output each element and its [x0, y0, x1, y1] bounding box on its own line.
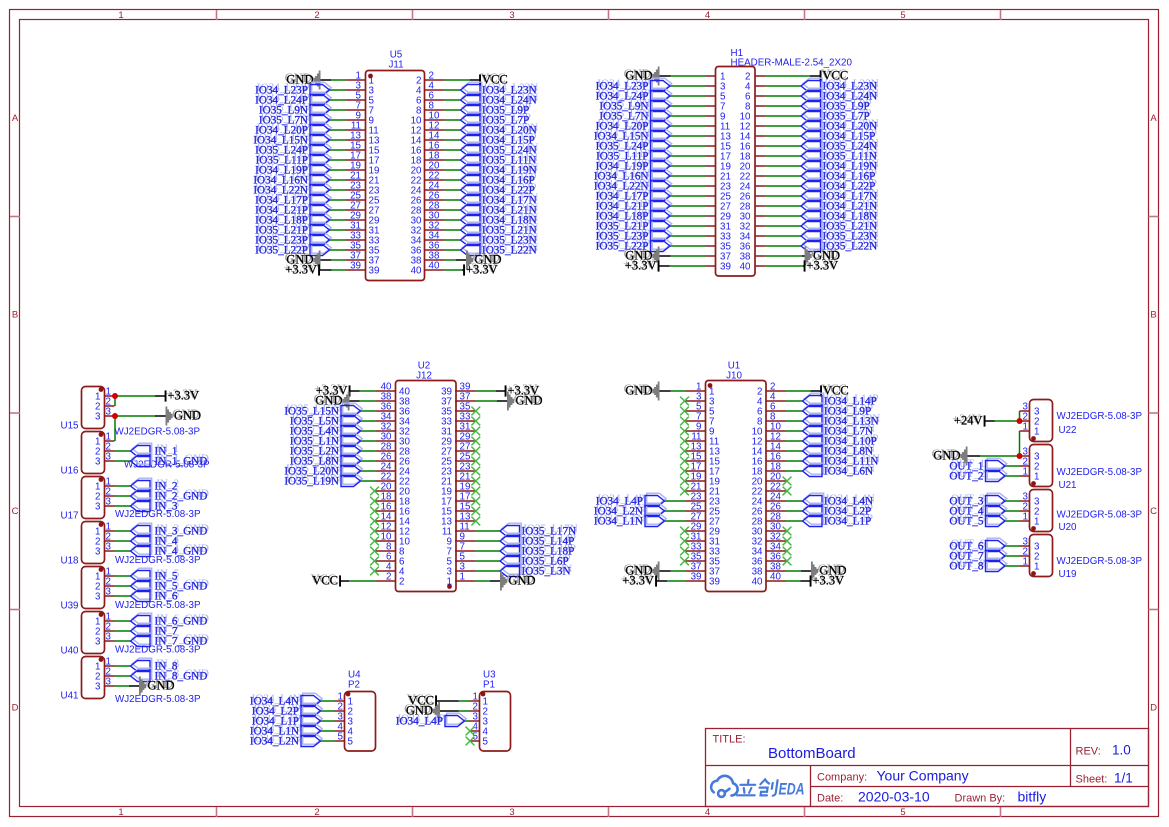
- U5 pin 4: [425, 89, 445, 91]
- power bar +3.3V at H1 pin 39: [658, 260, 660, 271]
- svg-text:3: 3: [509, 10, 514, 21]
- U1 pin 36: [766, 560, 786, 562]
- wire net IO35_L24N to U5 pin 16: [445, 149, 461, 151]
- wire VCC to U5 pin 2: [445, 79, 471, 81]
- connector U19 body: [1030, 535, 1053, 577]
- U16 pin-1 marker dot: [99, 432, 104, 437]
- wire net IO35_L9N to U5 pin 7: [330, 109, 346, 111]
- U2 pin 37: [455, 400, 475, 402]
- svg-text:5: 5: [338, 732, 344, 743]
- U5 pin 15: [346, 149, 366, 151]
- U1 pin 5: [686, 410, 706, 412]
- net flag IO34_L19P at H1: [652, 158, 672, 169]
- wire net IO35_L22P to U5 pin 35: [330, 249, 346, 251]
- junction at U22 pin 2: [1017, 418, 1023, 424]
- wire net IO34_L21N to U5 pin 28: [445, 209, 461, 211]
- net flag IO35_L7P at H1: [803, 108, 823, 119]
- U2 pin 5: [455, 560, 475, 562]
- U1 pin 18: [766, 470, 786, 472]
- svg-text:bitfly: bitfly: [1018, 789, 1047, 805]
- wire net IO34_L8N to U1 pin 14: [786, 450, 803, 452]
- net flag IN_4_GND: [132, 543, 152, 554]
- net flag IO35_L5N: [343, 413, 363, 424]
- svg-text:39: 39: [691, 572, 702, 583]
- H1 pin 3: [706, 85, 716, 87]
- wire net IO34_L16N to U5 pin 21: [330, 179, 346, 181]
- U2 pin 15: [455, 510, 475, 512]
- U2 pin 36: [376, 410, 396, 412]
- svg-text:1: 1: [1023, 512, 1028, 523]
- wire GND to U2 pin 38: [360, 400, 376, 402]
- wire +24V to U22 pins 2-3: [995, 420, 1020, 422]
- no-connect X at U2 pin 21: [471, 477, 480, 486]
- svg-text:39: 39: [709, 577, 720, 588]
- wire +3.3V to U2 pin 40: [360, 390, 376, 392]
- svg-text:40: 40: [411, 266, 422, 277]
- ground symbol at H1 pin 38: [805, 247, 812, 266]
- ground symbol at U5 pin 1: [313, 71, 320, 90]
- wire +3.3V to U5 pin 39: [332, 269, 346, 271]
- wire net IO34_L18N to U5 pin 30: [445, 219, 461, 221]
- U3 pin 5: [470, 740, 480, 742]
- wire net IO34_L22N to U5 pin 23: [330, 189, 346, 191]
- U5 pin 20: [425, 169, 445, 171]
- wire net IO34_L18P to U5 pin 29: [330, 219, 346, 221]
- svg-text:+3.3V: +3.3V: [813, 574, 845, 588]
- net flag IO35_L22N: [462, 242, 482, 253]
- wire net IN_3 to U17 pin 3: [115, 505, 131, 507]
- svg-text:3: 3: [95, 682, 101, 693]
- net flag IO34_L19N at H1: [803, 158, 823, 169]
- U20 pin 2: [1020, 510, 1030, 512]
- wire net IO34_L1N to U1 pin 27: [665, 520, 686, 522]
- svg-text:40: 40: [770, 572, 781, 583]
- net flag IO35_L17N: [502, 523, 522, 534]
- U2 pin 19: [455, 490, 475, 492]
- wire net IO34_L16N to H1 pin 21: [670, 175, 706, 177]
- net flag OUT_1: [987, 458, 1007, 469]
- svg-text:40: 40: [740, 262, 751, 273]
- net flag IO34_L18N: [462, 212, 482, 223]
- no-connect X at U1 pin 32: [783, 537, 792, 546]
- net flag IO34_L21P: [312, 202, 332, 213]
- net flag IO34_L2P: [303, 703, 323, 714]
- wire net IO34_L22P to H1 pin 24: [765, 185, 801, 187]
- ground symbol at U21 pin 3: [960, 447, 967, 466]
- H1 pin 1: [706, 75, 716, 77]
- wire net IO34_L17N to U5 pin 26: [445, 199, 461, 201]
- wire GND to U3 pin 2: [459, 710, 470, 712]
- U5 pin 37: [346, 259, 366, 261]
- net flag IO34_L11N: [804, 453, 824, 464]
- H1 pin 28: [755, 205, 765, 207]
- U1 pin 26: [766, 510, 786, 512]
- wire +3.3V to H1 pin 40: [765, 265, 803, 267]
- U5 pin 19: [346, 169, 366, 171]
- connector U16 body: [82, 432, 105, 474]
- wire net IO34_L18P to H1 pin 29: [670, 215, 706, 217]
- junction at U15 pin 3: [112, 413, 118, 419]
- net flag IO35_L18P: [502, 543, 522, 554]
- H1 pin 21: [706, 175, 716, 177]
- wire net IO35_L9N to H1 pin 7: [670, 105, 706, 107]
- U1 pin 30: [766, 530, 786, 532]
- ground symbol at U2 pin 38: [342, 392, 349, 411]
- net flag IO34_L6N: [804, 463, 824, 474]
- no-connect X at U1 pin 15: [680, 457, 689, 466]
- net flag IO34_L16N: [312, 172, 332, 183]
- no-connect X at U2 pin 33: [471, 417, 480, 426]
- net flag IO34_L19P: [312, 162, 332, 173]
- wire net IO35_L17N to U2 pin 11: [475, 530, 500, 532]
- wire GND to U5 pin 38: [445, 259, 457, 261]
- wire net IN_1 to U16 pin 2: [115, 450, 131, 452]
- net flag IO34_L22N: [312, 182, 332, 193]
- no-connect X at U2 pin 15: [471, 507, 480, 516]
- svg-text:OUT_8: OUT_8: [949, 561, 984, 573]
- net flag IO34_L2N: [303, 733, 323, 744]
- svg-text:3: 3: [106, 632, 112, 643]
- wire net IO35_L7P to H1 pin 10: [765, 115, 801, 117]
- U1 pin 20: [766, 480, 786, 482]
- net flag IO35_L11P: [312, 152, 332, 163]
- wire net IO35_L7N to H1 pin 9: [670, 115, 706, 117]
- wire +3.3V to U1 pin 39: [667, 580, 686, 582]
- wire net IO34_L2N to U4 pin 5: [321, 740, 335, 742]
- svg-text:WJ2EDGR-5.08-3P: WJ2EDGR-5.08-3P: [1057, 510, 1143, 521]
- U22 pin 2: [1020, 420, 1030, 422]
- svg-text:OUT_2: OUT_2: [949, 471, 983, 483]
- net flag IO35_L21P at H1: [652, 218, 672, 229]
- wire VCC to U3 pin 1: [459, 700, 470, 702]
- H1 pin 5: [706, 95, 716, 97]
- U1 pin 39: [686, 580, 706, 582]
- wire net IO34_L10P to U1 pin 12: [786, 440, 803, 442]
- net flag IO34_L9P: [804, 403, 824, 414]
- net flag IN_8_GND: [132, 668, 152, 679]
- no-connect X at U1 pin 20: [783, 477, 792, 486]
- wire net IO34_L15N to U5 pin 13: [330, 139, 346, 141]
- no-connect X at U1 pin 3: [680, 397, 689, 406]
- U41 pin-1 marker dot: [99, 657, 104, 662]
- svg-text:U20: U20: [1059, 522, 1078, 533]
- U5 pin 36: [425, 249, 445, 251]
- wire net IO34_L1N to U4 pin 4: [321, 730, 335, 732]
- U1 pin 2: [766, 390, 786, 392]
- wire net IN_2_GND to U17 pin 2: [115, 495, 131, 497]
- U1 pin 27: [686, 520, 706, 522]
- U2 pin 35: [455, 410, 475, 412]
- wire GND to U41 pin 3: [115, 685, 130, 687]
- svg-text:3: 3: [95, 502, 101, 513]
- svg-text:40: 40: [429, 261, 440, 272]
- svg-text:Sheet:: Sheet:: [1076, 774, 1108, 786]
- no-connect X at U2 pin 18: [370, 497, 379, 506]
- wire net IO35_L22N to U5 pin 36: [445, 249, 461, 251]
- power bar +3.3V at U1 pin 40: [810, 575, 812, 586]
- net flag IO34_L22N at H1: [652, 178, 672, 189]
- no-connect X at U1 pin 21: [680, 487, 689, 496]
- wire net IN_8 to U41 pin 1: [115, 665, 131, 667]
- net flag IO34_L18N at H1: [803, 208, 823, 219]
- U40 pin 2: [105, 630, 115, 632]
- U22 pin-1 marker dot: [1031, 436, 1036, 441]
- svg-text:5: 5: [900, 10, 905, 21]
- U2 pin 13: [455, 520, 475, 522]
- U5 pin 25: [346, 199, 366, 201]
- wire net IO34_L6N to U1 pin 18: [786, 470, 803, 472]
- U5 pin 10: [425, 119, 445, 121]
- svg-text:GND: GND: [933, 449, 960, 463]
- net flag IO34_L8N: [804, 443, 824, 454]
- net flag IO34_L13N: [804, 413, 824, 424]
- wire net IO35_L23N to U5 pin 34: [445, 239, 461, 241]
- wire net IO34_L2P to U1 pin 26: [786, 510, 803, 512]
- U2 pin 10: [376, 540, 396, 542]
- U2 pin 14: [376, 520, 396, 522]
- ground symbol at U1 pin 38: [811, 562, 818, 581]
- H1 pin 22: [755, 175, 765, 177]
- connector U21 body: [1030, 445, 1053, 487]
- wire net IO35_L24N to H1 pin 16: [765, 145, 801, 147]
- wire net IO35_L21N to H1 pin 32: [765, 225, 801, 227]
- U1 pin 4: [766, 400, 786, 402]
- net flag IO35_L23P at H1: [652, 228, 672, 239]
- U5 pin 2: [425, 79, 445, 81]
- U5 pin 13: [346, 139, 366, 141]
- wire net IO34_L24N to H1 pin 6: [765, 95, 801, 97]
- svg-text:GND: GND: [625, 384, 652, 398]
- U3 pin 1: [470, 700, 480, 702]
- net flag IO35_L11N: [462, 152, 482, 163]
- wire net IO34_L21P to H1 pin 27: [670, 205, 706, 207]
- U1 pin 33: [686, 550, 706, 552]
- H1 pin 33: [706, 235, 716, 237]
- H1 pin 4: [755, 85, 765, 87]
- net flag IO35_L9N at H1: [652, 98, 672, 109]
- svg-text:1: 1: [1023, 422, 1028, 433]
- wire GND to U5 pin 37: [331, 259, 346, 261]
- net flag IO34_L21N at H1: [803, 198, 823, 209]
- U5 pin 3: [346, 89, 366, 91]
- no-connect X at U1 pin 34: [783, 547, 792, 556]
- U17 pin 3: [105, 505, 115, 507]
- ground symbol at U15: [166, 407, 173, 426]
- net flag IO34_L19N: [462, 162, 482, 173]
- svg-text:39: 39: [369, 266, 380, 277]
- wire net IO34_L17P to H1 pin 25: [670, 195, 706, 197]
- net flag IO34_L17P: [312, 192, 332, 203]
- U1 pin 15: [686, 460, 706, 462]
- U4 pin 2: [335, 710, 345, 712]
- U5 pin 1: [346, 79, 366, 81]
- wire GND to U5 pin 1: [331, 79, 346, 81]
- svg-text:U16: U16: [61, 466, 80, 477]
- svg-text:IO35_L19N: IO35_L19N: [284, 476, 339, 488]
- net flag OUT_5: [987, 513, 1007, 524]
- svg-text:BottomBoard: BottomBoard: [768, 745, 856, 762]
- connector U20 body: [1030, 490, 1053, 532]
- wire net IO34_L11N to U1 pin 16: [786, 460, 803, 462]
- H1 pin 9: [706, 115, 716, 117]
- no-connect X at U2 pin 25: [471, 457, 480, 466]
- wire net IO35_L2N to U2 pin 28: [361, 450, 376, 452]
- wire net IO34_L15N to H1 pin 13: [670, 135, 706, 137]
- H1 pin 32: [755, 225, 765, 227]
- H1 pin 26: [755, 195, 765, 197]
- svg-text:P2: P2: [348, 680, 360, 691]
- wire net IO35_L23N to H1 pin 34: [765, 235, 801, 237]
- wire GND to H1 pin 1: [671, 75, 706, 77]
- net flag IO34_L22P: [462, 182, 482, 193]
- U2 pin 26: [376, 460, 396, 462]
- U5 pin 32: [425, 229, 445, 231]
- net flag IO35_L9P at H1: [803, 98, 823, 109]
- net flag IO35_L9P: [462, 102, 482, 113]
- U5 pin-1 marker dot: [368, 74, 373, 79]
- wire +3.3V from U15 pins 1-2: [115, 395, 156, 397]
- net flag IO34_L18P: [312, 212, 332, 223]
- LCEDA logo cloud icon: [711, 776, 738, 797]
- U18 pin-1 marker dot: [99, 522, 104, 527]
- net flag IO34_L14P: [804, 393, 824, 404]
- svg-text:2: 2: [314, 807, 319, 818]
- H1 pin 38: [755, 255, 765, 257]
- U15 pin 1: [105, 395, 115, 397]
- U1 pin 31: [686, 540, 706, 542]
- net flag IO34_L23N: [462, 82, 482, 93]
- U4 pin 1: [335, 700, 345, 702]
- U5 pin 6: [425, 99, 445, 101]
- junction at U21 pin 3: [1017, 453, 1023, 459]
- svg-text:5: 5: [900, 807, 905, 818]
- connector U22 body: [1030, 400, 1053, 442]
- svg-text:J12: J12: [416, 371, 432, 382]
- svg-text:EDA: EDA: [779, 781, 805, 799]
- net flag IO35_L21N at H1: [803, 218, 823, 229]
- net flag IO34_L16N at H1: [652, 168, 672, 179]
- svg-text:GND: GND: [516, 394, 543, 408]
- U1 pin 13: [686, 450, 706, 452]
- svg-text:C: C: [1150, 506, 1157, 517]
- net flag IO35_L24N: [462, 142, 482, 153]
- svg-text:1/1: 1/1: [1114, 771, 1133, 786]
- wire net IO34_L7N to U1 pin 10: [786, 430, 803, 432]
- power bar +3.3V at U1 pin 39: [655, 575, 657, 586]
- U19 pin 3: [1020, 545, 1030, 547]
- wire net IO34_L22P to U5 pin 24: [445, 189, 461, 191]
- connector U41 body: [82, 657, 105, 699]
- U2 pin 31: [455, 430, 475, 432]
- net flag IO34_L20N: [462, 122, 482, 133]
- wire net IO34_L21N to H1 pin 28: [765, 205, 801, 207]
- svg-text:D: D: [12, 703, 19, 714]
- ground symbol at U5 pin 37: [313, 251, 320, 270]
- svg-text:IN_4_GND: IN_4_GND: [155, 546, 208, 558]
- U2 pin 7: [455, 550, 475, 552]
- U3 pin-1 marker dot: [481, 692, 486, 697]
- net flag OUT_7: [987, 548, 1007, 559]
- U2 pin 38: [376, 400, 396, 402]
- no-connect X at U2 pin 4: [370, 567, 379, 576]
- wire net IO35_L11N to U5 pin 18: [445, 159, 461, 161]
- H1 pin 7: [706, 105, 716, 107]
- svg-text:TITLE:: TITLE:: [713, 734, 746, 746]
- net flag IO35_L23N: [462, 232, 482, 243]
- net flag IO34_L21P at H1: [652, 198, 672, 209]
- U2 pin 2: [376, 580, 396, 582]
- wire net IO34_L17N to H1 pin 26: [765, 195, 801, 197]
- wire net IN_5 to U39 pin 1: [115, 575, 131, 577]
- svg-text:1: 1: [1034, 427, 1039, 438]
- svg-text:U19: U19: [1059, 569, 1077, 580]
- svg-text:1: 1: [1034, 562, 1039, 573]
- U39 pin 1: [105, 575, 115, 577]
- wire net IO34_L16P to H1 pin 22: [765, 175, 801, 177]
- net flag IO34_L20P at H1: [652, 118, 672, 129]
- net flag IO35_L24N at H1: [803, 138, 823, 149]
- U1 pin 24: [766, 500, 786, 502]
- wire net IO34_L20P to U5 pin 11: [330, 129, 346, 131]
- net flag IO34_L15P: [462, 132, 482, 143]
- net flag IO34_L23P: [312, 82, 332, 93]
- svg-text:B: B: [12, 310, 18, 321]
- wire net IN_7 to U40 pin 2: [115, 630, 131, 632]
- power bar VCC at U1 pin 2: [820, 385, 822, 396]
- net flag IO34_L23N at H1: [803, 78, 823, 89]
- U5 pin 30: [425, 219, 445, 221]
- wire GND to U2 pin 1: [475, 580, 490, 582]
- ground symbol at U1 pin 1: [652, 382, 659, 401]
- svg-text:REV:: REV:: [1076, 746, 1101, 758]
- wire net IO35_L9P to H1 pin 8: [765, 105, 801, 107]
- svg-text:1: 1: [1034, 517, 1039, 528]
- H1 pin 11: [706, 125, 716, 127]
- U2 pin 23: [455, 470, 475, 472]
- connector U40 body: [82, 612, 105, 654]
- net flag IO35_L24P at H1: [652, 138, 672, 149]
- U1 pin 40: [766, 580, 786, 582]
- U1 pin 21: [686, 490, 706, 492]
- wire GND from U15 pin 3 to U16 pin 1: [115, 415, 156, 417]
- no-connect X at U1 pin 17: [680, 467, 689, 476]
- LCEDA logo Chinese characters: [737, 779, 778, 795]
- net flag IO35_L7N: [312, 112, 332, 123]
- no-connect X at U1 pin 33: [680, 547, 689, 556]
- net flag OUT_8: [987, 558, 1007, 569]
- net flag IO35_L23P: [312, 232, 332, 243]
- wire net OUT_6 to U19 pin 3: [1005, 545, 1020, 547]
- wire net IN_6 to U39 pin 3: [115, 595, 131, 597]
- wire net IO34_L24P to H1 pin 5: [670, 95, 706, 97]
- net flag IO34_L15N: [312, 132, 332, 143]
- U1 pin 14: [766, 450, 786, 452]
- net flag IN_2_GND: [132, 488, 152, 499]
- wire net IO35_L20N to U2 pin 24: [361, 470, 376, 472]
- net flag IO34_L24P at H1: [652, 88, 672, 99]
- connector U3 (P1) body: [480, 692, 511, 752]
- wire net OUT_2 to U21 pin 1: [1005, 475, 1020, 477]
- U21 pin-1 marker dot: [1031, 481, 1036, 486]
- net flag IN_1: [132, 443, 152, 454]
- power bar +24V at U22: [984, 415, 986, 426]
- svg-text:U41: U41: [61, 691, 79, 702]
- H1 pin 20: [755, 165, 765, 167]
- U5 pin 9: [346, 119, 366, 121]
- wire net IO35_L11P to H1 pin 17: [670, 155, 706, 157]
- U2 pin 30: [376, 440, 396, 442]
- net flag IO34_L2N: [647, 503, 667, 514]
